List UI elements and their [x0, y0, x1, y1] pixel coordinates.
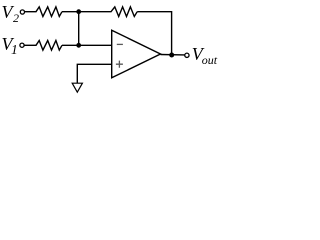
svg-text:V1: V1: [2, 34, 18, 57]
resistor Rf (feedback): [111, 7, 137, 17]
wire node A to feedback resistor: [79, 11, 112, 13]
op-amp U1 non-inverting pin label +: [116, 61, 123, 68]
op-amp U1: [112, 30, 161, 78]
wire resistor R1 to node B: [62, 44, 112, 46]
wire feedback resistor to corner: [137, 11, 171, 13]
junction node A top: [76, 9, 81, 14]
junction output node: [169, 53, 174, 58]
svg-text:V2: V2: [2, 2, 20, 25]
terminal V2: [20, 10, 24, 14]
svg-text:Vout: Vout: [192, 44, 218, 67]
wire feedback corner down to output node: [171, 11, 173, 55]
wire non-inverting input to ground corner: [77, 64, 111, 83]
ground: [72, 83, 82, 92]
wire resistor R2 to node A: [62, 11, 79, 13]
resistor R2 (V2 input): [36, 7, 62, 17]
wire node A to node B vertical: [78, 12, 80, 46]
terminal Vout: [185, 53, 189, 57]
op-amp U1 inverting pin label -: [117, 43, 123, 45]
junction node B inverting input: [76, 43, 81, 48]
wire V2 terminal to resistor: [25, 11, 37, 13]
resistor R1 (V1 input): [36, 41, 62, 51]
wire V1 terminal to resistor: [24, 44, 36, 46]
wire op-amp output to terminal: [161, 54, 185, 56]
terminal V1: [20, 43, 24, 47]
